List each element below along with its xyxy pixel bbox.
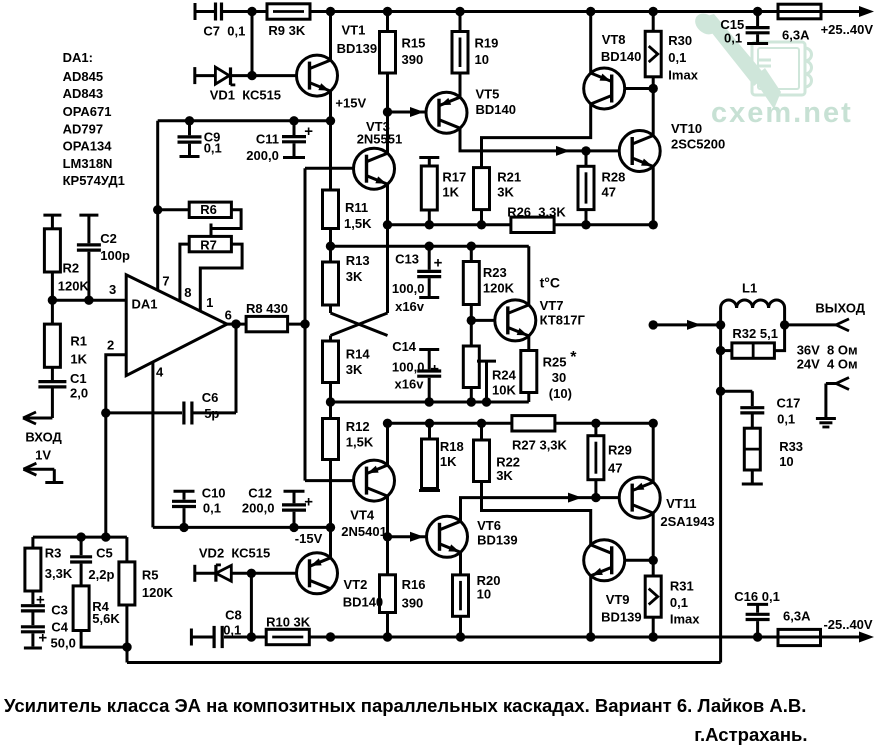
svg-text:7: 7 bbox=[162, 274, 169, 289]
svg-text:R30: R30 bbox=[668, 33, 692, 48]
svg-text:R14: R14 bbox=[346, 347, 371, 362]
svg-text:VT10: VT10 bbox=[671, 121, 702, 136]
svg-text:C1: C1 bbox=[70, 371, 87, 386]
svg-text:2,2p: 2,2p bbox=[88, 567, 114, 582]
svg-text:R19: R19 bbox=[475, 36, 499, 51]
svg-text:R25: R25 bbox=[543, 355, 567, 370]
svg-text:C4: C4 bbox=[51, 620, 68, 635]
svg-text:100p: 100p bbox=[100, 248, 130, 263]
svg-text:C13: C13 bbox=[395, 252, 419, 267]
svg-text:47: 47 bbox=[602, 185, 616, 200]
svg-text:(10): (10) bbox=[549, 386, 572, 401]
svg-text:BD139: BD139 bbox=[477, 533, 517, 548]
svg-text:+: + bbox=[38, 630, 47, 647]
svg-text:10: 10 bbox=[477, 587, 491, 602]
svg-text:2N5401: 2N5401 bbox=[341, 524, 387, 539]
svg-text:DA1: DA1 bbox=[132, 297, 158, 312]
svg-text:2,0: 2,0 bbox=[70, 386, 88, 401]
svg-text:3K: 3K bbox=[497, 185, 514, 200]
svg-text:6,3A: 6,3A bbox=[782, 28, 810, 43]
svg-text:R12: R12 bbox=[346, 419, 370, 434]
svg-text:100,0: 100,0 bbox=[392, 281, 425, 296]
svg-text:BD140: BD140 bbox=[343, 595, 383, 610]
svg-text:47: 47 bbox=[608, 461, 622, 476]
svg-text:R9 3K: R9 3K bbox=[268, 23, 305, 38]
svg-text:200,0: 200,0 bbox=[242, 501, 275, 516]
svg-text:VT6: VT6 bbox=[477, 518, 501, 533]
svg-text:1K: 1K bbox=[440, 454, 457, 469]
svg-text:R2: R2 bbox=[63, 261, 80, 276]
svg-text:R3: R3 bbox=[45, 546, 62, 561]
svg-text:50,0: 50,0 bbox=[51, 636, 76, 651]
svg-text:BD139: BD139 bbox=[337, 41, 377, 56]
svg-text:R10 3K: R10 3K bbox=[266, 615, 311, 630]
svg-text:1,5K: 1,5K bbox=[344, 216, 372, 231]
svg-text:120K: 120K bbox=[142, 585, 174, 600]
svg-text:R6: R6 bbox=[200, 202, 217, 217]
svg-text:3K: 3K bbox=[346, 362, 363, 377]
svg-text:5,6K: 5,6K bbox=[92, 611, 120, 626]
svg-text:R26 3,3K: R26 3,3K bbox=[507, 205, 566, 220]
svg-text:390: 390 bbox=[402, 596, 424, 611]
svg-text:DA1:: DA1: bbox=[63, 50, 93, 65]
svg-text:R31: R31 bbox=[670, 579, 694, 594]
svg-text:C14: C14 bbox=[392, 339, 417, 354]
svg-text:1,5K: 1,5K bbox=[346, 435, 374, 450]
svg-text:2N5551: 2N5551 bbox=[357, 132, 403, 147]
svg-text:R8 430: R8 430 bbox=[246, 301, 288, 316]
svg-text:R28: R28 bbox=[602, 170, 626, 185]
svg-text:R7: R7 bbox=[200, 237, 217, 252]
svg-text:0,1: 0,1 bbox=[670, 595, 688, 610]
svg-text:Imax: Imax bbox=[668, 68, 698, 83]
svg-text:4: 4 bbox=[156, 365, 164, 380]
svg-text:3,3K: 3,3K bbox=[45, 566, 73, 581]
svg-text:R33: R33 bbox=[779, 439, 803, 454]
svg-text:8: 8 bbox=[184, 285, 191, 300]
svg-text:VD1 КС515: VD1 КС515 bbox=[210, 87, 281, 102]
svg-text:C2: C2 bbox=[100, 231, 117, 246]
svg-text:AD845: AD845 bbox=[63, 69, 103, 84]
svg-text:3K: 3K bbox=[346, 269, 363, 284]
svg-text:VT5: VT5 bbox=[476, 87, 500, 102]
svg-text:VD2 КС515: VD2 КС515 bbox=[199, 546, 270, 561]
svg-text:VT2: VT2 bbox=[344, 577, 368, 592]
svg-text:10K: 10K bbox=[492, 383, 516, 398]
svg-text:+: + bbox=[430, 361, 439, 378]
svg-text:+: + bbox=[304, 494, 313, 511]
svg-text:24V 4 Ом: 24V 4 Ом bbox=[797, 357, 858, 372]
svg-text:ВХОД: ВХОД bbox=[25, 430, 62, 445]
svg-text:x16v: x16v bbox=[395, 377, 425, 392]
svg-text:R16: R16 bbox=[402, 577, 426, 592]
svg-text:0,1: 0,1 bbox=[777, 412, 795, 427]
svg-text:VT9: VT9 bbox=[606, 592, 630, 607]
svg-text:VT11: VT11 bbox=[666, 496, 696, 511]
svg-text:200,0: 200,0 bbox=[246, 148, 279, 163]
svg-text:C3: C3 bbox=[51, 603, 68, 618]
svg-text:R32 5,1: R32 5,1 bbox=[732, 326, 778, 341]
svg-text:3: 3 bbox=[109, 282, 116, 297]
svg-text:КР574УД1: КР574УД1 bbox=[63, 173, 125, 188]
svg-text:C8: C8 bbox=[225, 608, 242, 623]
svg-text:0,1: 0,1 bbox=[223, 623, 241, 638]
svg-text:+: + bbox=[36, 592, 45, 609]
svg-text:Усилитель класса ЭА на композ: Усилитель класса ЭА на композитных парал… bbox=[4, 695, 806, 716]
svg-text:C10: C10 bbox=[202, 486, 226, 501]
svg-text:AD843: AD843 bbox=[63, 86, 103, 101]
svg-text:R5: R5 bbox=[142, 568, 159, 583]
svg-text:C5: C5 bbox=[96, 546, 113, 561]
svg-text:R18: R18 bbox=[440, 439, 464, 454]
svg-text:г.Астрахань.: г.Астрахань. bbox=[694, 724, 807, 745]
svg-text:5p: 5p bbox=[204, 406, 219, 421]
svg-text:x16v: x16v bbox=[395, 299, 425, 314]
svg-text:2: 2 bbox=[107, 338, 114, 353]
svg-text:1K: 1K bbox=[442, 185, 459, 200]
svg-text:1: 1 bbox=[206, 295, 213, 310]
svg-text:2SC5200: 2SC5200 bbox=[671, 137, 725, 152]
svg-text:C17: C17 bbox=[777, 396, 801, 411]
svg-text:R27 3,3K: R27 3,3K bbox=[512, 438, 568, 453]
svg-text:6,3A: 6,3A bbox=[783, 609, 811, 624]
svg-text:*: * bbox=[570, 349, 577, 366]
svg-text:C16 0,1: C16 0,1 bbox=[734, 589, 780, 604]
svg-text:-15V: -15V bbox=[295, 531, 323, 546]
svg-text:R15: R15 bbox=[402, 36, 426, 51]
svg-text:36V 8 Ом: 36V 8 Ом bbox=[797, 343, 858, 358]
svg-text:cxem.net: cxem.net bbox=[711, 97, 853, 129]
svg-text:3K: 3K bbox=[496, 468, 513, 483]
svg-text:1V: 1V bbox=[35, 448, 51, 463]
svg-text:C7 0,1: C7 0,1 bbox=[203, 24, 245, 39]
svg-text:C6: C6 bbox=[202, 390, 219, 405]
svg-text:6: 6 bbox=[225, 308, 232, 323]
svg-text:R24: R24 bbox=[492, 368, 517, 383]
svg-text:+: + bbox=[434, 255, 443, 272]
svg-text:R17: R17 bbox=[442, 170, 466, 185]
svg-text:VT4: VT4 bbox=[350, 508, 375, 523]
svg-text:R29: R29 bbox=[608, 443, 632, 458]
svg-text:100,0: 100,0 bbox=[392, 360, 425, 375]
svg-text:120K: 120K bbox=[483, 281, 515, 296]
svg-text:ВЫХОД: ВЫХОД bbox=[815, 301, 865, 316]
svg-text:0,1: 0,1 bbox=[203, 501, 221, 516]
svg-text:BD139: BD139 bbox=[601, 610, 641, 625]
svg-text:10: 10 bbox=[475, 52, 489, 67]
svg-text:120K: 120K bbox=[58, 279, 90, 294]
svg-text:-25..40V: -25..40V bbox=[823, 617, 872, 632]
svg-text:L1: L1 bbox=[742, 281, 757, 296]
svg-text:VT8: VT8 bbox=[602, 32, 626, 47]
svg-text:0,1: 0,1 bbox=[724, 31, 742, 46]
svg-text:390: 390 bbox=[402, 52, 424, 67]
svg-text:10: 10 bbox=[779, 454, 793, 469]
svg-text:R11: R11 bbox=[345, 200, 368, 215]
svg-text:+15V: +15V bbox=[335, 96, 366, 111]
svg-text:КТ817Г: КТ817Г bbox=[540, 313, 586, 328]
svg-text:C12: C12 bbox=[248, 486, 272, 501]
svg-text:2SA1943: 2SA1943 bbox=[660, 514, 714, 529]
svg-text:R23: R23 bbox=[483, 265, 507, 280]
svg-text:OPA134: OPA134 bbox=[63, 139, 113, 154]
svg-text:OPA671: OPA671 bbox=[63, 104, 112, 119]
svg-text:0,1: 0,1 bbox=[668, 50, 686, 65]
svg-text:+: + bbox=[304, 123, 313, 140]
svg-text:R1: R1 bbox=[70, 334, 87, 349]
svg-text:+25..40V: +25..40V bbox=[821, 22, 874, 37]
svg-text:Imax: Imax bbox=[670, 612, 700, 627]
svg-text:1K: 1K bbox=[70, 352, 87, 367]
svg-text:30: 30 bbox=[552, 370, 566, 385]
svg-text:VT1: VT1 bbox=[342, 23, 366, 38]
svg-text:VT7: VT7 bbox=[540, 298, 564, 313]
svg-text:BD140: BD140 bbox=[601, 49, 641, 64]
svg-text:LM318N: LM318N bbox=[63, 156, 113, 171]
svg-text:R13: R13 bbox=[346, 253, 370, 268]
svg-text:AD797: AD797 bbox=[63, 122, 103, 137]
svg-text:C11: C11 bbox=[256, 131, 279, 146]
svg-text:R21: R21 bbox=[497, 170, 521, 185]
svg-text:t°C: t°C bbox=[540, 275, 560, 291]
svg-text:BD140: BD140 bbox=[476, 102, 516, 117]
svg-text:0,1: 0,1 bbox=[204, 141, 222, 156]
